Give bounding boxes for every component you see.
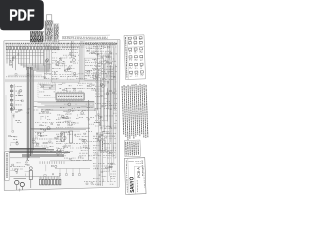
annotation text <box>98 135 104 137</box>
annotation text <box>66 131 69 133</box>
transistor Q113 <box>47 127 50 130</box>
value label <box>106 126 110 128</box>
IC101 label <box>58 96 82 98</box>
annotation text <box>69 120 73 122</box>
annotation text <box>91 131 92 133</box>
wire <box>37 50 39 70</box>
resistor R123 <box>87 85 89 86</box>
wire <box>113 44 115 164</box>
diode D104 <box>37 46 39 50</box>
wire <box>96 132 98 186</box>
capacitor C117 <box>42 179 44 185</box>
wire <box>31 50 33 66</box>
capacitor C132 <box>44 175 46 177</box>
annotation text <box>115 120 117 122</box>
pinout chart sidebar divider <box>127 35 129 79</box>
annotation text <box>100 52 103 54</box>
value label <box>105 60 108 62</box>
annotation text <box>45 84 50 86</box>
value label <box>94 122 99 124</box>
voltage chart row <box>45 22 52 24</box>
annotation text <box>92 85 94 87</box>
capacitor C147 <box>105 136 107 137</box>
title block box <box>124 158 146 195</box>
wire <box>20 50 22 66</box>
capacitor C105 <box>93 69 95 70</box>
value label <box>75 122 79 124</box>
title block text line <box>136 180 138 192</box>
wire <box>103 64 105 132</box>
capacitor C119 <box>48 179 50 185</box>
wire <box>43 84 45 90</box>
diode D115 <box>49 87 51 88</box>
annotation text <box>49 122 54 124</box>
annotation text <box>93 154 96 156</box>
value label <box>63 61 65 63</box>
annotation text <box>71 123 74 125</box>
annotation text <box>95 48 101 50</box>
value label <box>71 122 74 124</box>
wire <box>107 55 109 110</box>
annotation text <box>59 74 63 76</box>
capacitor C158 <box>16 110 18 113</box>
wire <box>44 45 46 79</box>
annotation text <box>99 181 105 183</box>
connector J101 cap <box>46 15 51 21</box>
wire <box>114 65 116 111</box>
value label <box>74 134 76 136</box>
wire <box>107 44 109 182</box>
wire <box>104 119 108 121</box>
wire <box>107 143 109 145</box>
annotation text <box>95 46 98 48</box>
net label <box>76 77 83 79</box>
diode D102 <box>18 46 20 50</box>
capacitor C115 <box>68 123 70 125</box>
transistor Q104 <box>56 63 59 66</box>
annotation text <box>47 115 48 117</box>
transistor Q106 <box>73 59 76 62</box>
value label <box>39 83 43 85</box>
annotation text <box>100 120 105 122</box>
wire <box>63 146 65 149</box>
net label <box>44 77 50 79</box>
capacitor C122 <box>56 179 58 185</box>
wire <box>6 50 8 64</box>
voltage chart row <box>45 25 52 27</box>
resistor R113 <box>70 54 71 55</box>
capacitor C120 <box>51 179 53 185</box>
value label <box>100 45 105 47</box>
annotation text <box>93 168 100 170</box>
voltage chart row <box>54 38 58 40</box>
title block header row <box>128 160 134 162</box>
diode D107 <box>51 46 53 50</box>
resistor R115 <box>59 57 60 60</box>
annotation text <box>104 142 111 144</box>
capacitor C150 <box>101 135 103 136</box>
notes text line <box>128 85 130 139</box>
annotation text <box>74 110 76 112</box>
value label <box>101 48 104 50</box>
notes text line <box>132 85 134 139</box>
value label <box>102 143 104 145</box>
wire <box>108 165 110 171</box>
transistor Q114 <box>38 132 41 135</box>
wire <box>44 88 56 90</box>
pinout label <box>129 60 132 62</box>
resistor R124 <box>65 89 67 91</box>
value label <box>83 147 87 149</box>
transistor Q105 <box>65 69 68 72</box>
svg-text:PCB-A: PCB-A <box>137 166 141 178</box>
resistor R128 <box>61 135 63 136</box>
value label <box>62 63 65 65</box>
annotation text <box>101 71 105 73</box>
wire <box>11 113 13 130</box>
notes text line <box>129 142 131 155</box>
wire <box>93 74 95 80</box>
annotation text <box>68 54 76 56</box>
net label <box>52 77 55 79</box>
annotation text <box>79 152 87 154</box>
wire <box>41 103 95 105</box>
resistor R110 <box>43 46 45 50</box>
wire <box>39 177 41 180</box>
voltage chart row <box>54 30 59 32</box>
annotation text <box>56 140 62 142</box>
wire <box>53 177 55 180</box>
annotation text <box>92 52 98 54</box>
value label <box>106 132 110 134</box>
value label <box>19 94 23 96</box>
capacitor C156 <box>69 110 71 112</box>
terminal label row <box>63 38 107 40</box>
capacitor C108 <box>10 109 13 111</box>
value label <box>85 147 90 149</box>
annotation text <box>35 131 38 133</box>
annotation text <box>56 122 61 124</box>
resistor R144 <box>10 62 12 63</box>
voltage chart row <box>54 26 59 28</box>
diode D155 <box>135 71 138 73</box>
annotation text <box>46 112 52 114</box>
annotation text <box>93 178 100 180</box>
wire <box>104 106 106 108</box>
value label <box>69 85 72 87</box>
wire <box>110 65 112 128</box>
annotation text <box>94 64 98 66</box>
annotation text <box>66 113 72 115</box>
notes text line <box>138 85 140 136</box>
annotation text <box>71 122 75 124</box>
voltage chart row <box>45 38 52 40</box>
annotation text <box>78 54 79 56</box>
transistor Q128 <box>68 103 71 106</box>
value label <box>17 162 21 164</box>
wire <box>13 113 15 118</box>
annotation text <box>69 51 78 53</box>
wire <box>30 129 86 131</box>
title block text line <box>141 160 144 176</box>
transistor Q122 <box>102 84 105 87</box>
title block text <box>135 160 143 162</box>
net label <box>87 73 90 75</box>
annotation text <box>61 148 65 150</box>
annotation text <box>78 87 85 89</box>
voltage chart row <box>45 27 52 29</box>
diode D112 <box>54 73 55 75</box>
annotation text <box>95 53 102 55</box>
value label <box>60 132 63 134</box>
diode D156 <box>140 71 143 73</box>
wire bus <box>28 67 30 158</box>
annotation text <box>105 115 113 117</box>
diode D118 <box>9 135 11 136</box>
wire <box>75 73 78 75</box>
pinout label <box>134 50 137 52</box>
IC101 inner line <box>57 94 84 99</box>
wire <box>115 44 117 158</box>
wire <box>34 106 95 108</box>
annotation text <box>95 125 99 127</box>
annotation text <box>103 130 110 132</box>
diode D126 <box>110 52 112 53</box>
value label <box>64 146 69 148</box>
pinout label <box>135 75 138 77</box>
terminal tick row <box>63 37 108 40</box>
capacitor C101 <box>27 74 29 75</box>
voltage chart row <box>45 35 52 37</box>
value label <box>75 55 77 57</box>
annotation text <box>69 57 75 59</box>
annotation text <box>93 140 100 142</box>
annotation text <box>52 57 57 59</box>
capacitor C136 <box>99 66 101 67</box>
wire <box>24 173 26 176</box>
wire <box>67 112 70 114</box>
annotation text <box>53 105 55 107</box>
svg-text:SANYO: SANYO <box>129 176 136 193</box>
annotation text <box>64 157 70 159</box>
capacitor C139 <box>101 105 103 107</box>
wire bus <box>10 152 71 154</box>
diode D150 <box>140 55 143 57</box>
annotation text <box>42 122 46 124</box>
wire <box>36 71 50 73</box>
wire <box>21 187 23 190</box>
annotation text <box>71 110 76 112</box>
voltage chart row <box>54 25 58 27</box>
diode D117 <box>12 131 14 132</box>
diode D108 <box>54 46 56 50</box>
annotation text <box>115 53 117 55</box>
annotation text <box>105 68 113 70</box>
wire <box>102 104 104 106</box>
wire <box>46 63 51 65</box>
annotation text <box>56 150 64 152</box>
wire bus <box>22 153 64 155</box>
value label <box>94 153 98 155</box>
diode D103 <box>34 46 36 50</box>
voltage chart row <box>45 21 52 23</box>
annotation text <box>115 98 118 100</box>
wire <box>110 176 112 182</box>
value label <box>65 120 69 122</box>
wire <box>47 147 49 150</box>
annotation text <box>114 137 115 139</box>
value label <box>65 117 69 119</box>
annotation text <box>95 88 102 90</box>
resistor R139 <box>110 62 112 63</box>
resistor R118 <box>10 86 13 88</box>
annotation text <box>113 147 116 149</box>
annotation text <box>77 85 82 87</box>
pinout label <box>134 43 137 45</box>
annotation text <box>83 159 91 161</box>
transistor Q119 <box>83 139 86 142</box>
value label <box>95 167 99 169</box>
annotation text <box>62 155 66 157</box>
value label <box>64 70 66 72</box>
annotation text <box>77 106 80 108</box>
wire <box>100 132 102 186</box>
value label <box>92 58 95 60</box>
diode D109 <box>57 46 59 50</box>
title block text line <box>143 168 146 188</box>
value label <box>43 142 47 144</box>
T501 winding marks <box>102 141 104 149</box>
annotation text <box>79 90 82 92</box>
net label <box>6 76 46 78</box>
wire <box>71 55 75 57</box>
wire <box>80 113 86 115</box>
diode D132 <box>105 150 107 152</box>
capacitor C154 <box>10 64 12 65</box>
wire <box>83 41 85 80</box>
capacitor C107 <box>97 53 99 55</box>
annotation text <box>78 59 80 61</box>
annotation text <box>42 142 48 144</box>
parts list row <box>30 36 43 38</box>
annotation text <box>56 127 63 129</box>
annotation text <box>95 66 100 68</box>
annotation text <box>78 110 80 112</box>
capacitor C123 <box>59 179 61 185</box>
transistor Q126 <box>81 112 84 115</box>
wire <box>100 52 102 134</box>
wire <box>34 130 80 132</box>
value label <box>16 109 22 111</box>
annotation text <box>114 181 115 183</box>
resistor R142 <box>109 152 111 154</box>
wire <box>55 167 90 169</box>
value label <box>108 71 111 73</box>
wire <box>67 68 71 70</box>
wire <box>72 41 74 58</box>
resistor R146 <box>27 112 29 113</box>
annotation text <box>64 103 69 105</box>
value label <box>58 136 62 138</box>
annotation text <box>98 154 102 156</box>
annotation text <box>107 162 114 164</box>
resistor R120 <box>10 95 13 97</box>
notes text line <box>127 142 129 156</box>
annotation text <box>95 50 104 52</box>
wire <box>98 69 100 138</box>
annotation text <box>105 50 111 52</box>
wire <box>13 84 15 110</box>
annotation text <box>60 76 67 78</box>
wire <box>92 51 99 53</box>
annotation text <box>52 76 58 78</box>
annotation text <box>54 91 55 93</box>
pinout label <box>140 59 143 61</box>
wire <box>59 177 61 180</box>
annotation text <box>65 142 72 144</box>
wire <box>12 51 15 53</box>
diode D130 <box>98 114 99 116</box>
wire <box>105 51 107 86</box>
resistor R129 <box>49 141 51 142</box>
transistor Q115 <box>32 140 35 143</box>
wire bus <box>33 70 35 150</box>
capacitor C152 <box>111 163 112 165</box>
wire <box>77 114 79 117</box>
annotation text <box>49 142 53 144</box>
annotation text <box>105 105 108 107</box>
annotation text <box>115 115 117 117</box>
resistor R125 <box>58 124 60 125</box>
IC IC101 <box>61 132 64 142</box>
annotation text <box>70 147 75 149</box>
annotation text <box>70 78 75 80</box>
value label <box>39 177 60 179</box>
annotation text <box>69 124 72 126</box>
annotation text <box>104 107 111 109</box>
annotation text <box>95 93 101 95</box>
wire <box>16 185 18 190</box>
annotation text <box>102 78 107 80</box>
net label <box>44 73 48 75</box>
video block outline <box>97 43 110 56</box>
wire <box>105 63 108 65</box>
value label <box>62 116 65 118</box>
net label <box>78 73 84 75</box>
wire <box>80 146 82 149</box>
resistor R147 <box>20 109 22 112</box>
wire <box>66 55 68 59</box>
diode D106 <box>49 46 51 50</box>
annotation text <box>51 109 54 111</box>
diode D144 <box>139 41 142 43</box>
voltage chart row <box>54 37 58 39</box>
wire <box>45 165 47 172</box>
annotation text <box>114 122 117 124</box>
capacitor C102 <box>70 61 72 63</box>
capacitor C135 <box>101 57 103 58</box>
annotation text <box>110 175 116 177</box>
terminal label row <box>63 36 108 38</box>
wire <box>64 64 66 70</box>
parts list row <box>30 32 43 34</box>
wire <box>6 54 44 56</box>
diode D110 <box>49 72 51 75</box>
voltage chart strip outline <box>45 21 53 43</box>
annotation text <box>102 170 110 172</box>
pinout label <box>135 60 138 62</box>
wire <box>11 84 13 113</box>
